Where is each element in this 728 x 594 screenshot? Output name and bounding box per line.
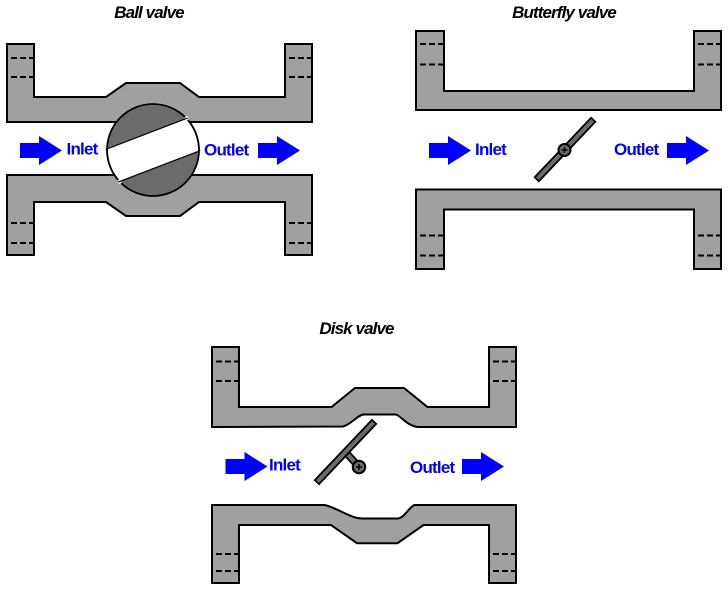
svg-text:Disk valve: Disk valve — [319, 319, 394, 338]
svg-text:Ball valve: Ball valve — [114, 3, 184, 22]
svg-text:Inlet: Inlet — [67, 140, 99, 159]
svg-text:Inlet: Inlet — [269, 456, 301, 475]
svg-text:Outlet: Outlet — [410, 458, 456, 477]
svg-text:Outlet: Outlet — [614, 140, 660, 159]
svg-text:Outlet: Outlet — [204, 141, 250, 160]
svg-text:Butterfly valve: Butterfly valve — [512, 3, 616, 22]
svg-text:Inlet: Inlet — [475, 140, 507, 159]
